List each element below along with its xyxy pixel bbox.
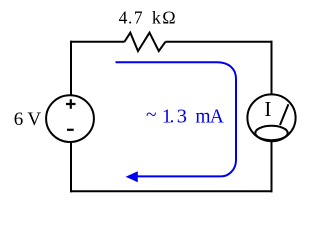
voltage source plus sign bbox=[66, 99, 76, 108]
current direction arrow (blue loop) bbox=[116, 62, 237, 176]
svg-text:A: A bbox=[210, 107, 224, 128]
svg-text:4: 4 bbox=[119, 8, 128, 28]
voltage source V1 circle bbox=[46, 95, 94, 142]
wire left upper segment bbox=[70, 41, 72, 95]
ammeter needle bbox=[280, 104, 288, 125]
svg-text:k: k bbox=[152, 8, 161, 28]
svg-text:Ω: Ω bbox=[162, 8, 175, 28]
svg-text:6: 6 bbox=[14, 109, 24, 130]
svg-text:~: ~ bbox=[146, 105, 157, 126]
wire left lower segment bbox=[70, 142, 72, 192]
svg-text:7: 7 bbox=[134, 8, 143, 28]
voltage source value label 6 V bbox=[14, 109, 42, 130]
svg-text:.: . bbox=[169, 107, 174, 128]
wire bottom segment bbox=[70, 190, 273, 192]
wire top-right segment bbox=[166, 41, 273, 43]
svg-text:I: I bbox=[264, 97, 271, 121]
svg-text:3: 3 bbox=[177, 106, 187, 128]
resistor R1 zigzag bbox=[125, 33, 166, 51]
wire right lower segment bbox=[271, 142, 273, 192]
svg-text:V: V bbox=[27, 109, 41, 130]
svg-text:.: . bbox=[128, 9, 132, 28]
current value label ~ 1.3 mA bbox=[146, 105, 224, 127]
wire right upper segment bbox=[271, 41, 273, 94]
wire top-left segment bbox=[71, 41, 125, 43]
ammeter U1 circle bbox=[247, 94, 295, 141]
ammeter dial ellipse bbox=[255, 126, 287, 140]
current arrowhead bbox=[126, 171, 138, 182]
voltage source minus sign bbox=[67, 129, 74, 131]
resistor R1 value label 4.7 kOhm bbox=[119, 8, 176, 28]
svg-text:m: m bbox=[195, 107, 210, 128]
